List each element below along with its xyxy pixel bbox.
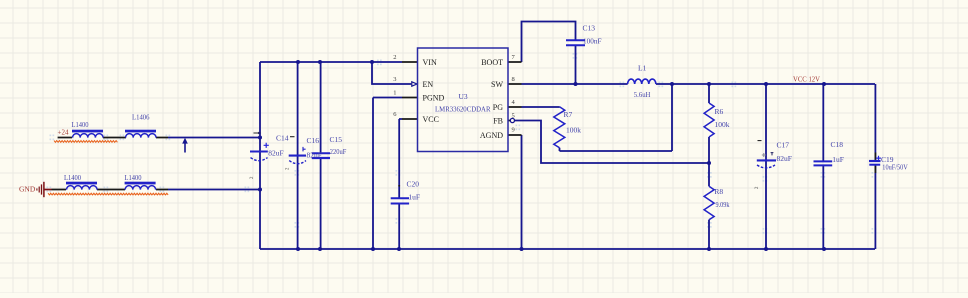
svg-text:R7: R7 bbox=[564, 110, 573, 119]
svg-text:EN: EN bbox=[423, 80, 434, 89]
svg-text:82uF: 82uF bbox=[268, 148, 283, 157]
svg-text:L1400: L1400 bbox=[64, 173, 81, 182]
svg-text:R8: R8 bbox=[714, 187, 723, 196]
svg-text:C15: C15 bbox=[330, 135, 343, 144]
svg-text:82uF: 82uF bbox=[777, 154, 792, 163]
svg-text:C18: C18 bbox=[831, 140, 844, 149]
svg-text:VCC 12V: VCC 12V bbox=[793, 76, 820, 84]
svg-text:VCC: VCC bbox=[423, 115, 439, 124]
svg-text:R6: R6 bbox=[715, 107, 724, 116]
svg-text:L1400: L1400 bbox=[72, 120, 89, 129]
svg-text:100nF: 100nF bbox=[583, 37, 602, 46]
svg-text:PGND: PGND bbox=[423, 94, 445, 103]
svg-text:SW: SW bbox=[491, 80, 503, 89]
svg-text:C14: C14 bbox=[276, 133, 289, 142]
svg-text:C20: C20 bbox=[407, 180, 420, 189]
svg-text:3: 3 bbox=[393, 76, 396, 83]
svg-text:5.6uH: 5.6uH bbox=[634, 90, 651, 99]
svg-text:L1406: L1406 bbox=[132, 113, 150, 122]
svg-text:L1400: L1400 bbox=[125, 173, 142, 182]
svg-text:AGND: AGND bbox=[480, 131, 503, 140]
svg-text:C19: C19 bbox=[881, 155, 894, 164]
svg-text:100k: 100k bbox=[566, 126, 581, 135]
svg-text:8: 8 bbox=[512, 76, 515, 83]
svg-text:9.09k: 9.09k bbox=[716, 200, 730, 209]
svg-text:C16: C16 bbox=[307, 136, 320, 145]
svg-text:+24: +24 bbox=[58, 129, 69, 137]
svg-text:82uF: 82uF bbox=[307, 150, 322, 159]
svg-text:9: 9 bbox=[512, 127, 515, 134]
svg-text:2: 2 bbox=[393, 54, 396, 61]
svg-text:GND: GND bbox=[19, 185, 36, 194]
svg-text:FB: FB bbox=[493, 117, 503, 126]
svg-text:VIN: VIN bbox=[423, 58, 437, 67]
svg-text:C13: C13 bbox=[583, 24, 596, 33]
svg-text:L1: L1 bbox=[638, 64, 647, 73]
svg-text:U3: U3 bbox=[459, 92, 468, 101]
svg-text:100k: 100k bbox=[715, 120, 730, 129]
svg-text:1uF: 1uF bbox=[408, 193, 420, 202]
svg-text:10uF/50V: 10uF/50V bbox=[882, 164, 908, 171]
svg-text:1: 1 bbox=[393, 90, 396, 97]
svg-text:C17: C17 bbox=[777, 141, 790, 150]
svg-text:220uF: 220uF bbox=[330, 147, 347, 156]
svg-text:BOOT: BOOT bbox=[481, 58, 503, 67]
svg-text:1uF: 1uF bbox=[832, 155, 844, 164]
svg-text:LMR33620CDDAR: LMR33620CDDAR bbox=[435, 105, 491, 114]
svg-text:PG: PG bbox=[493, 103, 503, 112]
svg-text:5: 5 bbox=[512, 113, 515, 120]
